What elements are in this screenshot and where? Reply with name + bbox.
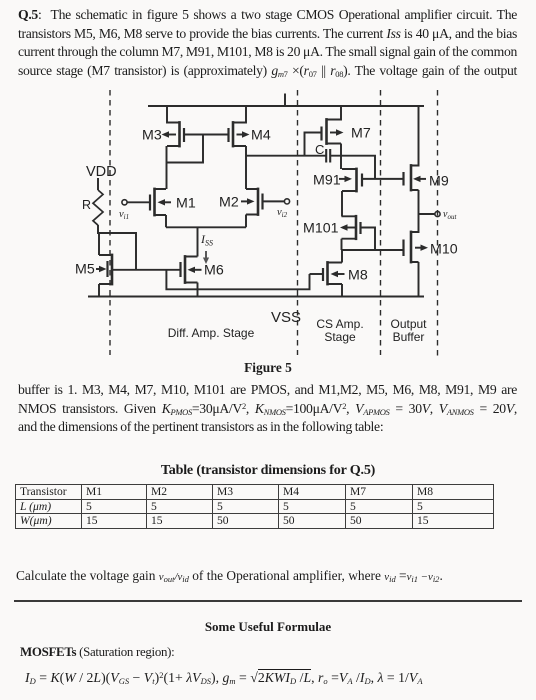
- transistor M6: [181, 255, 198, 284]
- figure caption: [0, 360, 536, 376]
- wire M7 gate tap: [305, 133, 322, 156]
- svg-text:Buffer: Buffer: [393, 330, 425, 344]
- transistor M4: [229, 106, 247, 147]
- VSS rail wire: [88, 296, 424, 298]
- capacitor C: [326, 149, 330, 163]
- Iss current arrow: [203, 251, 209, 264]
- M5 pointer arrow: [96, 266, 107, 272]
- M10 pointer arrow: [415, 245, 428, 251]
- M3 pointer arrow: [162, 131, 177, 137]
- calculate line: [16, 568, 443, 584]
- wire M10 source to VSS: [418, 262, 420, 297]
- transistor M2: [246, 188, 263, 216]
- svg-text:M91: M91: [313, 173, 341, 189]
- svg-text:Stage: Stage: [324, 330, 356, 344]
- mosfets heading: [20, 645, 174, 660]
- svg-text:vi1: vi1: [119, 209, 129, 221]
- wire M8 drain up: [341, 250, 343, 263]
- wire M101 drain down: [341, 239, 343, 250]
- svg-text:CS Amp.: CS Amp.: [316, 317, 363, 331]
- wire M5-M6 gate net: [112, 269, 181, 271]
- wire VDD to resistor: [97, 178, 99, 190]
- svg-text:M8: M8: [348, 268, 368, 284]
- wire resistor to bias node: [98, 225, 136, 270]
- horizontal rule: [14, 600, 522, 602]
- formula line: [25, 670, 423, 686]
- node vi1 input: [122, 200, 150, 205]
- M8 pointer arrow: [331, 271, 345, 277]
- svg-text:VDD: VDD: [86, 164, 117, 180]
- resistor R: [93, 190, 103, 225]
- svg-text:M7: M7: [351, 126, 371, 142]
- table: [15, 484, 494, 529]
- transistor M7: [322, 106, 342, 145]
- svg-text:M10: M10: [430, 242, 458, 258]
- wire M101 gate diode tap: [361, 228, 376, 251]
- wire M5 source to VSS: [98, 284, 100, 297]
- svg-text:Output: Output: [390, 317, 427, 331]
- wire M3 drain diode connection: [167, 135, 204, 190]
- wire M8 gate lead: [310, 273, 324, 275]
- M7 pointer arrow: [330, 129, 344, 135]
- M4 pointer arrow: [237, 131, 250, 137]
- transistor M5: [99, 254, 112, 286]
- wire stage1 output to capacitor: [246, 155, 326, 157]
- wire tail node: [166, 215, 246, 228]
- transistor M8: [323, 261, 342, 285]
- transistor M91: [342, 168, 362, 193]
- rail stub: [284, 94, 286, 107]
- stage boundary dashed line 3: [380, 90, 382, 355]
- svg-text:vout: vout: [443, 209, 457, 221]
- wire bias gate net to M8: [166, 270, 309, 290]
- paragraph 2: [18, 381, 517, 437]
- wire M91 source to M101: [341, 191, 343, 216]
- some useful formulae: [0, 619, 536, 635]
- wire M4 drain to M2 drain: [245, 146, 247, 189]
- transistor M1: [150, 188, 166, 217]
- wire M3-M4 gate net: [184, 134, 229, 136]
- stage boundary dashed line 1: [109, 90, 111, 355]
- svg-text:M9: M9: [429, 174, 449, 190]
- svg-text:M6: M6: [204, 263, 224, 279]
- transistor M101: [342, 215, 361, 240]
- node vout: [419, 211, 441, 216]
- wire CS output net: [342, 249, 404, 251]
- node vi2 input: [263, 199, 290, 204]
- svg-text:C: C: [315, 142, 324, 157]
- wire M6 source to VSS: [197, 283, 199, 297]
- svg-text:vi2: vi2: [277, 207, 288, 219]
- stage boundary dashed line 2: [297, 90, 299, 355]
- stage boundary dashed line 4: [437, 90, 439, 356]
- svg-text:VSS: VSS: [271, 309, 301, 326]
- svg-text:R: R: [82, 198, 91, 212]
- M9 pointer arrow: [413, 176, 426, 182]
- wire M7 drain to M91 drain: [340, 144, 342, 170]
- paragraph 1: [18, 6, 517, 81]
- M101 pointer arrow: [340, 224, 355, 230]
- transistor M3: [167, 106, 184, 147]
- svg-text:M2: M2: [219, 195, 239, 211]
- svg-text:ISS: ISS: [200, 232, 213, 248]
- M1 pointer arrow: [158, 199, 172, 205]
- wire capacitor to M91 gate: [331, 156, 375, 179]
- wire R node to M5 drain: [98, 233, 100, 255]
- wire M91 gate to M9 gate: [362, 178, 404, 180]
- transistor M9: [404, 106, 419, 191]
- wire M8 source to VSS: [341, 284, 343, 297]
- table title: [0, 462, 536, 479]
- VDD rail wire: [148, 105, 424, 107]
- svg-text:Diff. Amp. Stage: Diff. Amp. Stage: [168, 326, 255, 340]
- M2 pointer arrow: [241, 198, 255, 204]
- svg-text:M3: M3: [142, 128, 162, 144]
- transistor M10: [404, 214, 419, 263]
- svg-text:M5: M5: [75, 262, 95, 278]
- wire M9 drain to output node: [418, 190, 420, 214]
- M6 pointer arrow: [188, 267, 202, 273]
- M91 pointer arrow: [339, 176, 352, 182]
- svg-text:M101: M101: [303, 221, 339, 237]
- wire tail to M6 drain: [197, 227, 199, 256]
- svg-text:M4: M4: [251, 128, 271, 144]
- svg-text:M1: M1: [176, 196, 196, 212]
